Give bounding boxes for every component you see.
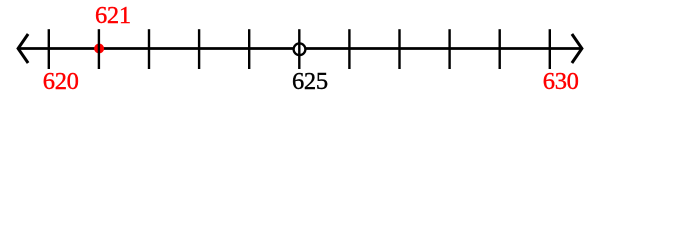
tick 627 (398, 29, 400, 69)
point dot at 621 (94, 44, 104, 54)
tick 624 (248, 29, 250, 69)
left arrowhead (18, 34, 28, 63)
tick 629 (499, 29, 501, 69)
svg-text:621: 621 (95, 2, 131, 29)
tick 620 (48, 29, 50, 69)
tick 621 (98, 29, 100, 69)
tick 623 (198, 29, 200, 69)
tick 630 (549, 29, 551, 69)
right arrowhead (572, 34, 582, 63)
svg-text:620: 620 (43, 68, 79, 95)
svg-text:630: 630 (543, 68, 579, 95)
tick 625 (298, 29, 300, 69)
svg-text:625: 625 (292, 68, 328, 95)
tick 622 (148, 29, 150, 69)
number line axis (18, 47, 582, 50)
tick 626 (348, 29, 350, 69)
open circle at 625 (294, 43, 306, 55)
tick 628 (448, 29, 450, 69)
